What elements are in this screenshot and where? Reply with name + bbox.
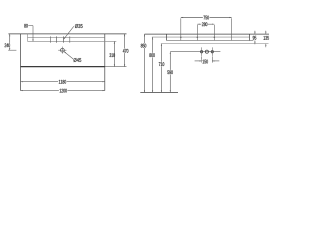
dimension 95 edge height — [254, 31, 256, 34]
fixing holes horizontal line — [170, 51, 220, 53]
dimension 80 with corner leader down — [28, 25, 33, 27]
dimension 850 rim height — [144, 34, 146, 92]
dimension 1180 inner width — [21, 81, 105, 83]
left view: inner rim line lower with ext for 310 — [28, 40, 117, 42]
tap hole tick 3 — [62, 36, 64, 42]
drain hole D45 circle with crosshair — [61, 48, 65, 52]
tap hole tick 1 — [50, 36, 52, 42]
left view: inner basin left wall — [27, 34, 29, 42]
dimension 590 fixing hole height — [169, 52, 171, 93]
left view: basin top edge with left+right extensions — [8, 33, 126, 35]
right view: slab left edge — [166, 34, 168, 40]
dimension 310 right inner height — [113, 41, 115, 66]
left view: basin bottom front edge (thick) — [21, 66, 105, 68]
left view: basin right edge with extension down — [104, 34, 106, 91]
dimension 135 total height — [265, 31, 267, 34]
dimension 750 fixing span — [181, 17, 232, 19]
floor line — [140, 92, 178, 94]
leader with label D45 pointing to drain — [64, 51, 73, 59]
dimension 240 left vertical — [9, 34, 11, 50]
tap hole tick 2 — [56, 36, 58, 42]
right view: slab top edge with extensions — [145, 33, 270, 35]
right view: slab second line with left ext for 800 — [152, 36, 250, 38]
right view: slab front bottom edge with right ext for 95 — [167, 40, 254, 42]
dimension 800 — [152, 37, 154, 92]
right view: apron bottom line with exts for 710 and 135 — [161, 43, 269, 45]
dimension 280 — [197, 23, 214, 25]
leader with label D35 pointing to tap hole — [64, 26, 74, 39]
dimension 710 — [160, 44, 162, 93]
dimension 1200 outer width — [21, 90, 105, 92]
dimension 150 fixing hole spacing — [201, 56, 203, 62]
left view: inner rim line upper — [28, 37, 105, 39]
fixing hole left — [201, 51, 203, 53]
tap hole tick 4 — [69, 36, 71, 42]
left view: basin left edge with extension down — [20, 34, 22, 91]
dimension 470 right outer height — [124, 34, 126, 67]
tick dots on slab line — [180, 36, 182, 38]
fixing hole right — [211, 51, 213, 53]
left view: bottom edge extension right — [105, 66, 127, 68]
drain outlet circle center — [205, 50, 208, 53]
right view: slab right edge — [249, 34, 251, 40]
